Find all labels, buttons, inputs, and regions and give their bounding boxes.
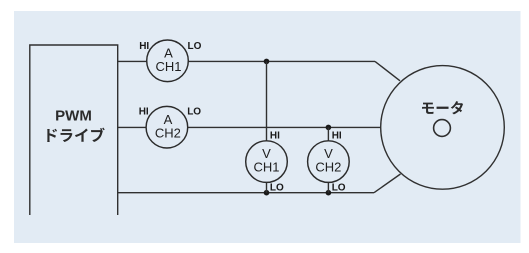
node junction row3 right — [326, 190, 332, 196]
wire V CH1 vertical bottom — [266, 182, 268, 192]
wire row1 box to A CH1 — [118, 60, 147, 62]
wire row3 bottom — [118, 192, 374, 194]
svg-text:A: A — [164, 45, 173, 60]
motor terminal circle — [434, 120, 451, 137]
node junction row2 — [326, 125, 332, 131]
svg-text:HI: HI — [332, 131, 342, 142]
label モータ — [422, 101, 463, 114]
svg-text:LO: LO — [188, 41, 202, 52]
voltmeter V CH1 — [246, 141, 288, 183]
wire row2 A CH2 to motor — [188, 126, 381, 128]
svg-text:LO: LO — [332, 183, 346, 194]
wire row2 box to A CH2 — [118, 126, 147, 128]
svg-text:HI: HI — [139, 41, 149, 52]
svg-text:HI: HI — [270, 131, 280, 142]
svg-text:PWM: PWM — [55, 108, 92, 125]
svg-text:HI: HI — [139, 106, 149, 117]
svg-text:CH2: CH2 — [155, 126, 181, 141]
node junction row1 — [264, 59, 270, 65]
svg-text:A: A — [164, 112, 173, 127]
ammeter A CH1 — [147, 40, 189, 82]
svg-text:LO: LO — [187, 106, 201, 117]
svg-text:CH1: CH1 — [253, 159, 279, 174]
ammeter A CH2 — [146, 106, 188, 148]
wire row1 slant to motor — [375, 61, 400, 80]
wire row1 A CH1 to bend — [188, 60, 375, 62]
label ドライブ — [47, 128, 104, 142]
node junction row3 left — [264, 190, 270, 196]
svg-text:LO: LO — [270, 182, 284, 193]
motor M1 — [381, 66, 505, 190]
voltmeter V CH2 — [308, 141, 350, 183]
wire V CH1 vertical top — [266, 61, 268, 141]
svg-text:CH2: CH2 — [315, 159, 341, 174]
PWM drive box U1 — [30, 45, 118, 215]
wire row3 slant to motor — [374, 174, 401, 193]
wire V CH2 vertical bottom — [327, 182, 329, 192]
svg-text:CH1: CH1 — [155, 59, 181, 74]
wire V CH2 vertical top — [327, 127, 329, 140]
